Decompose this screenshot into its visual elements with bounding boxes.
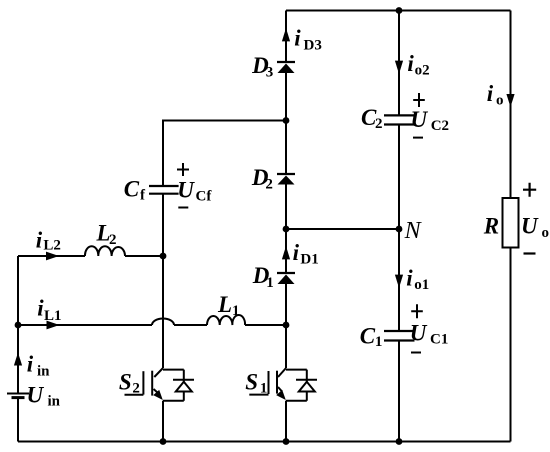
- svg-text:2: 2: [132, 381, 140, 397]
- svg-text:i: i: [293, 240, 300, 265]
- svg-text:2: 2: [375, 116, 383, 132]
- svg-text:1: 1: [232, 303, 240, 319]
- svg-text:N: N: [404, 218, 423, 244]
- svg-text:i: i: [27, 352, 34, 377]
- svg-text:D3: D3: [304, 38, 322, 54]
- svg-text:i: i: [487, 81, 494, 106]
- svg-text:C2: C2: [431, 118, 449, 134]
- svg-text:C1: C1: [430, 332, 448, 348]
- svg-text:1: 1: [375, 334, 383, 350]
- svg-text:i: i: [294, 26, 301, 51]
- svg-text:C: C: [360, 324, 376, 349]
- svg-text:i: i: [406, 266, 413, 291]
- svg-text:in: in: [48, 394, 61, 410]
- svg-text:U: U: [411, 107, 429, 132]
- svg-text:i: i: [407, 51, 414, 76]
- svg-text:S: S: [245, 370, 258, 395]
- svg-text:1: 1: [266, 275, 274, 291]
- svg-text:L1: L1: [44, 308, 62, 324]
- svg-text:in: in: [37, 364, 50, 380]
- svg-text:L: L: [217, 292, 232, 317]
- svg-text:3: 3: [266, 65, 274, 81]
- svg-text:U: U: [410, 321, 428, 346]
- svg-text:U: U: [521, 214, 539, 239]
- svg-text:U: U: [27, 383, 45, 408]
- svg-text:L2: L2: [43, 238, 61, 254]
- svg-text:i: i: [36, 228, 43, 253]
- svg-text:D1: D1: [300, 252, 318, 268]
- svg-text:Cf: Cf: [196, 189, 213, 205]
- svg-text:1: 1: [260, 381, 268, 397]
- svg-text:R: R: [483, 214, 499, 239]
- svg-text:S: S: [119, 370, 132, 395]
- svg-text:2: 2: [109, 232, 117, 248]
- svg-text:o: o: [542, 225, 550, 241]
- svg-text:C: C: [124, 177, 140, 202]
- svg-text:o1: o1: [414, 277, 429, 293]
- svg-text:2: 2: [265, 177, 273, 193]
- svg-text:o2: o2: [415, 63, 430, 79]
- svg-text:U: U: [177, 178, 195, 203]
- svg-text:o: o: [496, 93, 504, 109]
